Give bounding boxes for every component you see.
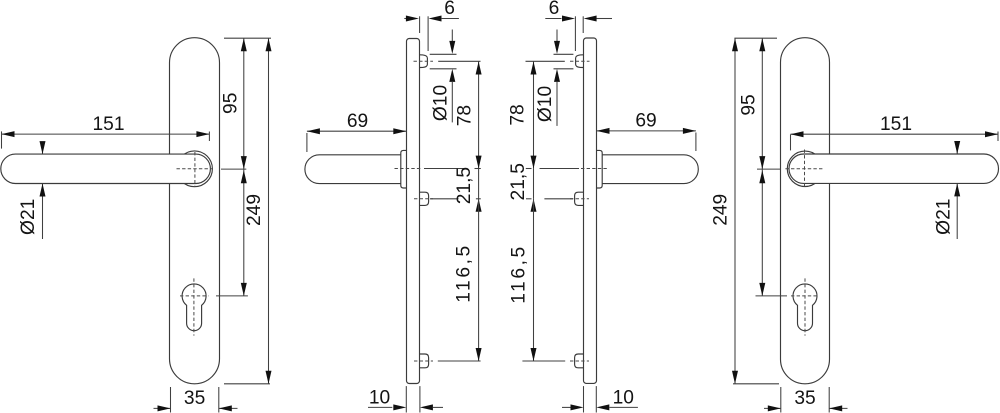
dimension 10 label (left side view) xyxy=(369,388,390,409)
extension lines stud diameter (left side view) xyxy=(430,54,457,69)
svg-text:78: 78 xyxy=(455,105,476,126)
dimension 95 line (right view) xyxy=(759,38,765,169)
dimension 151 line (left view) xyxy=(2,131,210,137)
dimension 21,5 label (left side view) xyxy=(454,167,475,204)
middle fixing stud (side view, right set) xyxy=(575,192,584,205)
dimension Ø21 line (left view) xyxy=(40,141,46,239)
dimension 10 label (right side view) xyxy=(613,388,634,409)
extension line handle axis (right view) xyxy=(757,168,781,170)
dimension 95 label (left view) xyxy=(221,93,242,114)
handle axis center line (right side view) xyxy=(581,168,609,170)
svg-text:Ø10: Ø10 xyxy=(535,86,556,122)
svg-text:Ø10: Ø10 xyxy=(430,85,451,121)
dimension 69 label (right side view) xyxy=(635,111,656,132)
dimension 6 label (right side view) xyxy=(549,0,560,19)
extension line plate top (right view) xyxy=(734,37,777,39)
dimension 69 line and arrows (left side view) xyxy=(307,128,406,134)
dimension 6 line and arrows (right side view) xyxy=(545,16,612,22)
backplate (side view, right set) thickness 10 xyxy=(584,38,597,383)
dimension 35 label (left view) xyxy=(184,388,205,409)
handle rose bearing circle (left set) xyxy=(177,151,213,187)
top fixing stud (side view, left set) xyxy=(420,55,428,68)
dimension line handle axis to cylinder (right view) xyxy=(759,169,765,296)
svg-text:Ø21: Ø21 xyxy=(18,199,39,235)
dimension 6 line and arrows (left side view) xyxy=(404,16,459,22)
extension line middle stud axis (right side view) xyxy=(526,198,573,200)
dimension 69 line and arrows (right side view) xyxy=(597,128,696,134)
dimension 35 line and arrows (right view) xyxy=(764,405,848,411)
backplate (front view, left set) 35x249 xyxy=(170,38,220,384)
svg-text:6: 6 xyxy=(444,0,455,19)
backplate (side view, left set) thickness 10 xyxy=(407,39,420,384)
extension line handle axis (left view) xyxy=(221,168,246,170)
dimension Ø10 line and arrows (left side view) xyxy=(449,30,455,123)
extension lines stud diameter (right side view) xyxy=(554,54,574,69)
handle axis center line (left front view) xyxy=(177,152,213,187)
dimension Ø10 label (right side view) xyxy=(535,86,556,122)
handle rose bearing circle (right set) xyxy=(787,151,822,186)
dimension 6 extension lines (left side view) xyxy=(420,16,429,51)
backplate (front view, right set) 35x249 xyxy=(781,38,830,384)
svg-text:Ø21: Ø21 xyxy=(934,199,955,235)
svg-text:10: 10 xyxy=(369,388,390,409)
dimension 10 extension lines (right side view) xyxy=(584,386,597,412)
svg-text:151: 151 xyxy=(880,114,912,135)
euro profile cylinder hole (left front view) xyxy=(182,284,206,331)
euro profile cylinder hole (right front view) xyxy=(793,284,817,331)
dimension 69 label (left side view) xyxy=(347,111,368,132)
svg-text:21,5: 21,5 xyxy=(508,163,529,200)
svg-text:35: 35 xyxy=(794,388,815,409)
dimension 35 extension lines (left view) xyxy=(171,387,219,413)
extension line middle stud axis (left side view) xyxy=(430,198,481,200)
bottom fixing stud (side view, right set) xyxy=(575,354,584,368)
dimension 6 extension lines (right side view) xyxy=(575,16,583,51)
dimension 10 extension lines (left side view) xyxy=(406,386,420,412)
svg-text:78: 78 xyxy=(507,104,528,125)
dimension 78 line (right side view) xyxy=(531,62,537,169)
lever handle grip (front view, right set) length 151 xyxy=(789,154,999,183)
handle axis center line (right front view) xyxy=(785,150,823,188)
extension line bottom stud axis (right side view) xyxy=(522,360,565,362)
bottom fixing stud (side view, left set) xyxy=(420,354,429,368)
bottom stud center line (right side view) xyxy=(570,360,589,362)
dimension 21,5 line (left side view) xyxy=(476,169,482,212)
svg-text:116,5: 116,5 xyxy=(509,244,530,304)
svg-text:249: 249 xyxy=(710,194,731,226)
dimension 116,5 line (right side view) xyxy=(531,199,537,361)
extension line handle axis (right side view) xyxy=(526,168,579,170)
dimension Ø10 label (left side view) xyxy=(430,85,451,121)
extension line bottom stud axis (left side view) xyxy=(438,360,481,362)
svg-text:95: 95 xyxy=(739,94,760,115)
bottom stud center line (left side view) xyxy=(414,360,433,362)
dimension 6 label (left side view) xyxy=(444,0,455,19)
dimension 10 line and arrows (right side view) xyxy=(562,404,638,410)
dimension 151 extension lines (right view) xyxy=(791,132,999,151)
svg-text:10: 10 xyxy=(613,388,634,409)
extension line cylinder axis (left view) xyxy=(216,295,248,297)
handle axis center line (left side view) xyxy=(395,168,423,170)
dimension 78 line (left side view) xyxy=(476,62,482,169)
dimension Ø21 label (right view) xyxy=(934,199,955,235)
dimension 10 line and arrows (left side view) xyxy=(368,404,443,410)
dimension 249 label (right view) xyxy=(710,194,731,226)
svg-text:21,5: 21,5 xyxy=(454,167,475,204)
top stud center line (left side view) xyxy=(414,60,434,62)
dimension 21,5 label (right side view) xyxy=(508,163,529,200)
svg-text:69: 69 xyxy=(635,111,656,132)
extension line plate bottom (right view) xyxy=(733,383,779,385)
extension line top stud axis (right side view) xyxy=(526,60,565,62)
lever grip (side view, left set) projection 69 xyxy=(305,155,401,184)
dimension 35 line and arrows (left view) xyxy=(154,405,238,411)
middle stud center line (right side view) xyxy=(570,198,589,200)
svg-text:249: 249 xyxy=(244,194,265,226)
handle collar (side view, left set) xyxy=(401,150,407,188)
dimension Ø21 label (left view) xyxy=(18,199,39,235)
dimension 151 label (right view) xyxy=(880,114,912,135)
handle collar (side view, right set) xyxy=(597,150,603,188)
dimension 21,5 line (right side view) xyxy=(531,169,537,212)
dimension 69 extension line (left side view) xyxy=(306,133,308,152)
lever handle grip (front view, left set) length 151 xyxy=(1,154,211,183)
svg-text:35: 35 xyxy=(184,388,205,409)
dimension 116,5 line (left side view) xyxy=(476,199,482,361)
svg-text:116,5: 116,5 xyxy=(454,243,475,303)
dimension 35 label (right view) xyxy=(794,388,815,409)
top stud center line (right side view) xyxy=(570,60,590,62)
svg-text:6: 6 xyxy=(549,0,560,19)
svg-text:151: 151 xyxy=(92,114,124,135)
extension line plate bottom (left view) xyxy=(224,383,270,385)
dimension 116,5 label (right side view) xyxy=(509,244,530,304)
extension line handle axis (left side view) xyxy=(424,168,481,170)
dimension 95 label (right view) xyxy=(739,94,760,115)
middle fixing stud (side view, left set) xyxy=(420,192,429,205)
extension line plate top (left view) xyxy=(224,37,271,39)
dimension 35 extension lines (right view) xyxy=(781,387,829,413)
dimension 151 line (right view) xyxy=(791,131,999,137)
dimension 78 label (left side view) xyxy=(455,105,476,126)
dimension 249 line (right view) xyxy=(732,38,738,384)
dimension line handle axis to cylinder (left view) xyxy=(241,169,247,296)
dimension 78 label (right side view) xyxy=(507,104,528,125)
dimension Ø10 line and arrows (right side view) xyxy=(554,30,560,126)
svg-text:69: 69 xyxy=(347,111,368,132)
extension line top stud axis (left side view) xyxy=(438,60,480,62)
cylinder hole center line (left front view) xyxy=(180,278,208,335)
dimension Ø21 line (right view) xyxy=(954,141,960,239)
svg-text:95: 95 xyxy=(221,93,242,114)
dimension 249 label (left view) xyxy=(244,194,265,226)
extension line cylinder axis (right view) xyxy=(756,295,788,297)
dimension 249 line (left view) xyxy=(266,38,272,384)
middle stud center line (left side view) xyxy=(414,198,433,200)
dimension 116,5 label (left side view) xyxy=(454,243,475,303)
dimension 151 extension lines (left view) xyxy=(2,131,210,148)
dimension 151 label (left view) xyxy=(92,114,124,135)
top fixing stud (side view, right set) xyxy=(576,55,584,68)
dimension 95 line (left view) xyxy=(241,38,247,169)
lever grip (side view, right set) projection 69 xyxy=(602,155,698,184)
cylinder hole center line (right front view) xyxy=(791,278,819,335)
dimension 69 extension line (right side view) xyxy=(695,133,697,152)
